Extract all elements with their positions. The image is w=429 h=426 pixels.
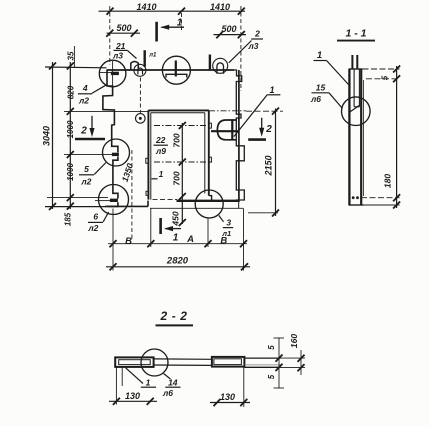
panel left edge with keyway notches (103, 70, 118, 206)
chain extension lines (64, 110, 148, 112)
left overall dim 3040 (45, 46, 107, 210)
svg-text:1 - 1: 1 - 1 (345, 28, 366, 40)
callout circle 4 (loop plate, top middle) (162, 56, 190, 84)
dim 500 left (106, 30, 140, 37)
svg-text:2 - 2: 2 - 2 (159, 309, 187, 323)
svg-text:2150: 2150 (264, 155, 274, 176)
callout circle 1 (4/L2) (99, 60, 126, 87)
callout label 5/L2 (79, 163, 106, 187)
svg-text:л1: л1 (148, 53, 157, 59)
inner chain dash-dot extensions (154, 125, 212, 127)
left 130 dim (109, 367, 157, 405)
keyway aux line circle1 (100, 72, 118, 74)
svg-text:5: 5 (84, 164, 89, 174)
svg-text:6: 6 (93, 212, 98, 222)
svg-text:В: В (125, 236, 132, 247)
column right edge outer (362, 80, 364, 196)
panel right edge with tabs (238, 70, 240, 202)
svg-text:700: 700 (172, 133, 182, 147)
left chain dimension line (67, 62, 74, 210)
right extension dashed vertical (240, 6, 242, 91)
section marker 2 right: arrow (248, 118, 266, 140)
loop1 axis dashed (139, 78, 141, 114)
svg-text:1000: 1000 (66, 163, 75, 181)
right thickness dims (274, 338, 306, 389)
left extension dashed vertical (109, 6, 111, 65)
svg-text:450: 450 (171, 211, 181, 226)
section marker 1 top: arrow (160, 25, 184, 30)
right 130 dim (210, 367, 250, 407)
D-shaped void (211, 119, 240, 140)
svg-text:2820: 2820 (166, 256, 189, 267)
plate hook diagonal (349, 105, 360, 112)
svg-text:3: 3 (226, 218, 231, 228)
loop 1 n-profile (138, 68, 143, 75)
jamb fixture tab left (146, 158, 149, 163)
svg-text:л6: л6 (162, 388, 173, 398)
svg-text:35: 35 (67, 51, 76, 60)
loop 3 n-profile (217, 63, 224, 74)
svg-text:5: 5 (267, 345, 276, 350)
bottom overall dim 2820 (106, 263, 250, 270)
svg-text:130: 130 (220, 392, 235, 402)
column top edge (349, 68, 363, 70)
title underline (337, 40, 375, 42)
svg-text:21: 21 (115, 41, 126, 51)
callout label 2/L3 (229, 28, 263, 62)
svg-text:180: 180 (383, 174, 393, 188)
svg-text:15: 15 (316, 83, 326, 93)
detail circle 15/L6 (342, 97, 371, 126)
title underline (156, 324, 194, 326)
callout label 3/L1 (219, 215, 233, 238)
leader label 1 (right top) (234, 85, 280, 137)
leader label 1 (section 1-1) (314, 50, 351, 87)
opening left jamb (148, 110, 150, 199)
opening sill step (in circle 7) (209, 196, 216, 201)
top dimension line 1410+1410 (99, 8, 246, 15)
svg-text:700: 700 (172, 171, 182, 185)
svg-text:1410: 1410 (210, 2, 230, 12)
svg-text:1: 1 (173, 233, 179, 244)
loop 1 anchor bar (143, 50, 145, 67)
jamb fixture tab left lower (146, 191, 149, 195)
svg-text:14: 14 (168, 378, 178, 388)
jamb fixture tab right lower (209, 157, 212, 162)
panel left box outer (115, 357, 153, 367)
keyway axis circle1 (112, 61, 114, 86)
keyway aux line circle3 (95, 200, 110, 202)
reinforcement dots (352, 196, 355, 199)
panel top edge (107, 69, 235, 71)
column right edge (360, 69, 362, 205)
keyway axis dashed lower left (131, 150, 133, 241)
svg-text:л2: л2 (87, 223, 98, 233)
panel right tail (244, 358, 280, 367)
callout circle 7 (3/L1) (195, 190, 223, 218)
panel right box outer (212, 357, 245, 367)
bottom extension verticals (113, 209, 244, 271)
opening right jamb (205, 110, 209, 195)
detail circle 14/L6 (141, 349, 168, 376)
svg-text:1: 1 (269, 85, 274, 95)
panel mid web (154, 359, 212, 366)
keyway bar circle3 (110, 199, 118, 202)
svg-text:л3: л3 (112, 51, 123, 61)
svg-text:1: 1 (159, 170, 164, 179)
svg-text:130: 130 (125, 391, 140, 401)
svg-text:2: 2 (80, 126, 87, 137)
leader 1 small (opening) (152, 170, 164, 179)
svg-text:л2: л2 (78, 95, 89, 105)
section marker 1 bottom (161, 218, 181, 234)
dim 500 right (214, 31, 247, 38)
svg-text:А: А (186, 234, 194, 245)
small callout circle 6 (loop 1) (134, 64, 146, 76)
panel bottom edge (105, 201, 244, 209)
svg-text:500: 500 (116, 23, 131, 33)
svg-text:820: 820 (67, 85, 76, 99)
callout label 15/L6 (310, 83, 343, 109)
loop plate inside circle 4 (166, 61, 187, 78)
svg-text:160: 160 (289, 334, 299, 348)
bottom sill centerline dash (153, 198, 178, 200)
callout circle 2 (5/L2) (103, 139, 130, 166)
keyway bar circle1 (111, 72, 119, 75)
right dim line of section 1-1 (393, 66, 400, 209)
svg-text:1000: 1000 (66, 120, 75, 138)
right dim 2150 (246, 108, 283, 217)
embedded plate (354, 69, 359, 107)
callout label 4/L2 (78, 83, 106, 105)
opening top edge (148, 110, 209, 112)
callout label 14/L6 (162, 374, 181, 399)
callout label 6/L2 (87, 212, 108, 234)
panel left box inner plate (119, 360, 151, 365)
leader label 1 (section 2-2) (125, 367, 156, 387)
svg-text:В: В (220, 236, 227, 247)
inner dim chain 700/700/450 (179, 122, 186, 226)
callout label 21/L3 (112, 41, 137, 61)
svg-text:л9: л9 (155, 146, 166, 156)
svg-text:1: 1 (146, 378, 151, 388)
svg-text:5: 5 (267, 374, 276, 379)
svg-text:л6: л6 (310, 94, 321, 104)
svg-text:2: 2 (254, 28, 260, 38)
svg-text:5: 5 (380, 75, 389, 80)
jamb fixture tab right upper (209, 123, 212, 128)
callout circle 3 (6/L2) (99, 185, 129, 215)
svg-text:3040: 3040 (42, 126, 52, 146)
loop 3 anchor bar (209, 55, 211, 71)
svg-text:1410: 1410 (136, 2, 156, 12)
bottom row line A/B (108, 240, 247, 247)
callout label 22/L9 (154, 135, 169, 156)
svg-text:500: 500 (221, 24, 236, 34)
svg-text:1: 1 (177, 18, 183, 29)
small fixture circle with dot (136, 114, 146, 124)
section marker 1 top: bar (155, 22, 158, 42)
mid extension dashed vertical (181, 13, 183, 30)
svg-text:4: 4 (82, 83, 88, 93)
svg-text:185: 185 (64, 212, 73, 226)
svg-text:1: 1 (317, 50, 322, 61)
anchor rods above top (352, 55, 357, 70)
section marker 2 left: arrow (75, 116, 105, 139)
panel right box inner plate (214, 359, 242, 365)
column left edge (348, 69, 350, 205)
column bottom edge (349, 204, 364, 206)
keyway bar circle2 (112, 153, 119, 156)
svg-text:2: 2 (265, 124, 272, 135)
svg-text:22: 22 (155, 135, 166, 145)
small callout circle 5 (loop 3) (213, 58, 228, 73)
loop 1 bump (131, 62, 139, 71)
opening top dash extension right (209, 110, 246, 112)
svg-text:л2: л2 (80, 176, 91, 186)
extension dashes to dim (361, 69, 400, 205)
